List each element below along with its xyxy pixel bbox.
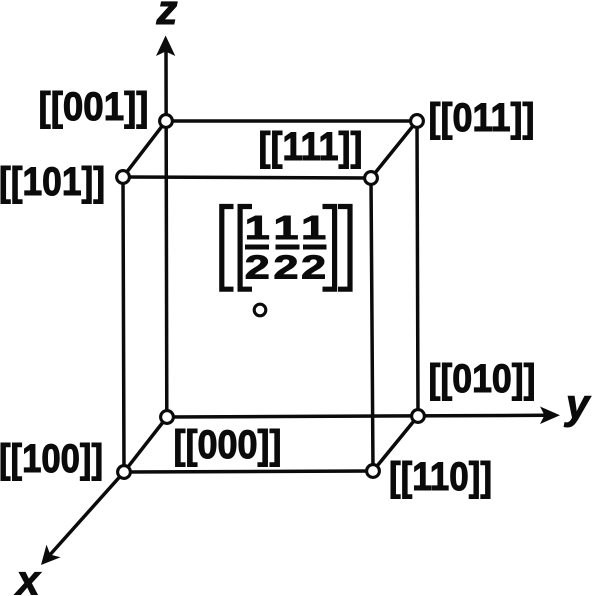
svg-text:z: z — [156, 0, 178, 33]
svg-text:[[100]]: [[100]] — [0, 437, 103, 481]
svg-text:2: 2 — [274, 250, 299, 287]
svg-text:2: 2 — [245, 250, 270, 287]
svg-text:[[110]]: [[110]] — [389, 455, 492, 499]
svg-text:[[000]]: [[000]] — [174, 423, 282, 467]
svg-text:[[010]]: [[010]] — [429, 357, 536, 401]
svg-text:y: y — [564, 381, 592, 428]
svg-text:[[111]]: [[111]] — [259, 125, 363, 169]
svg-text:x: x — [14, 557, 41, 596]
svg-text:[[011]]: [[011]] — [429, 96, 535, 140]
svg-text:[[001]]: [[001]] — [39, 85, 149, 129]
svg-text:1: 1 — [301, 210, 326, 247]
svg-text:1: 1 — [274, 210, 299, 247]
svg-text:1: 1 — [245, 210, 270, 247]
svg-text:[[101]]: [[101]] — [0, 160, 105, 204]
svg-text:2: 2 — [301, 250, 326, 287]
